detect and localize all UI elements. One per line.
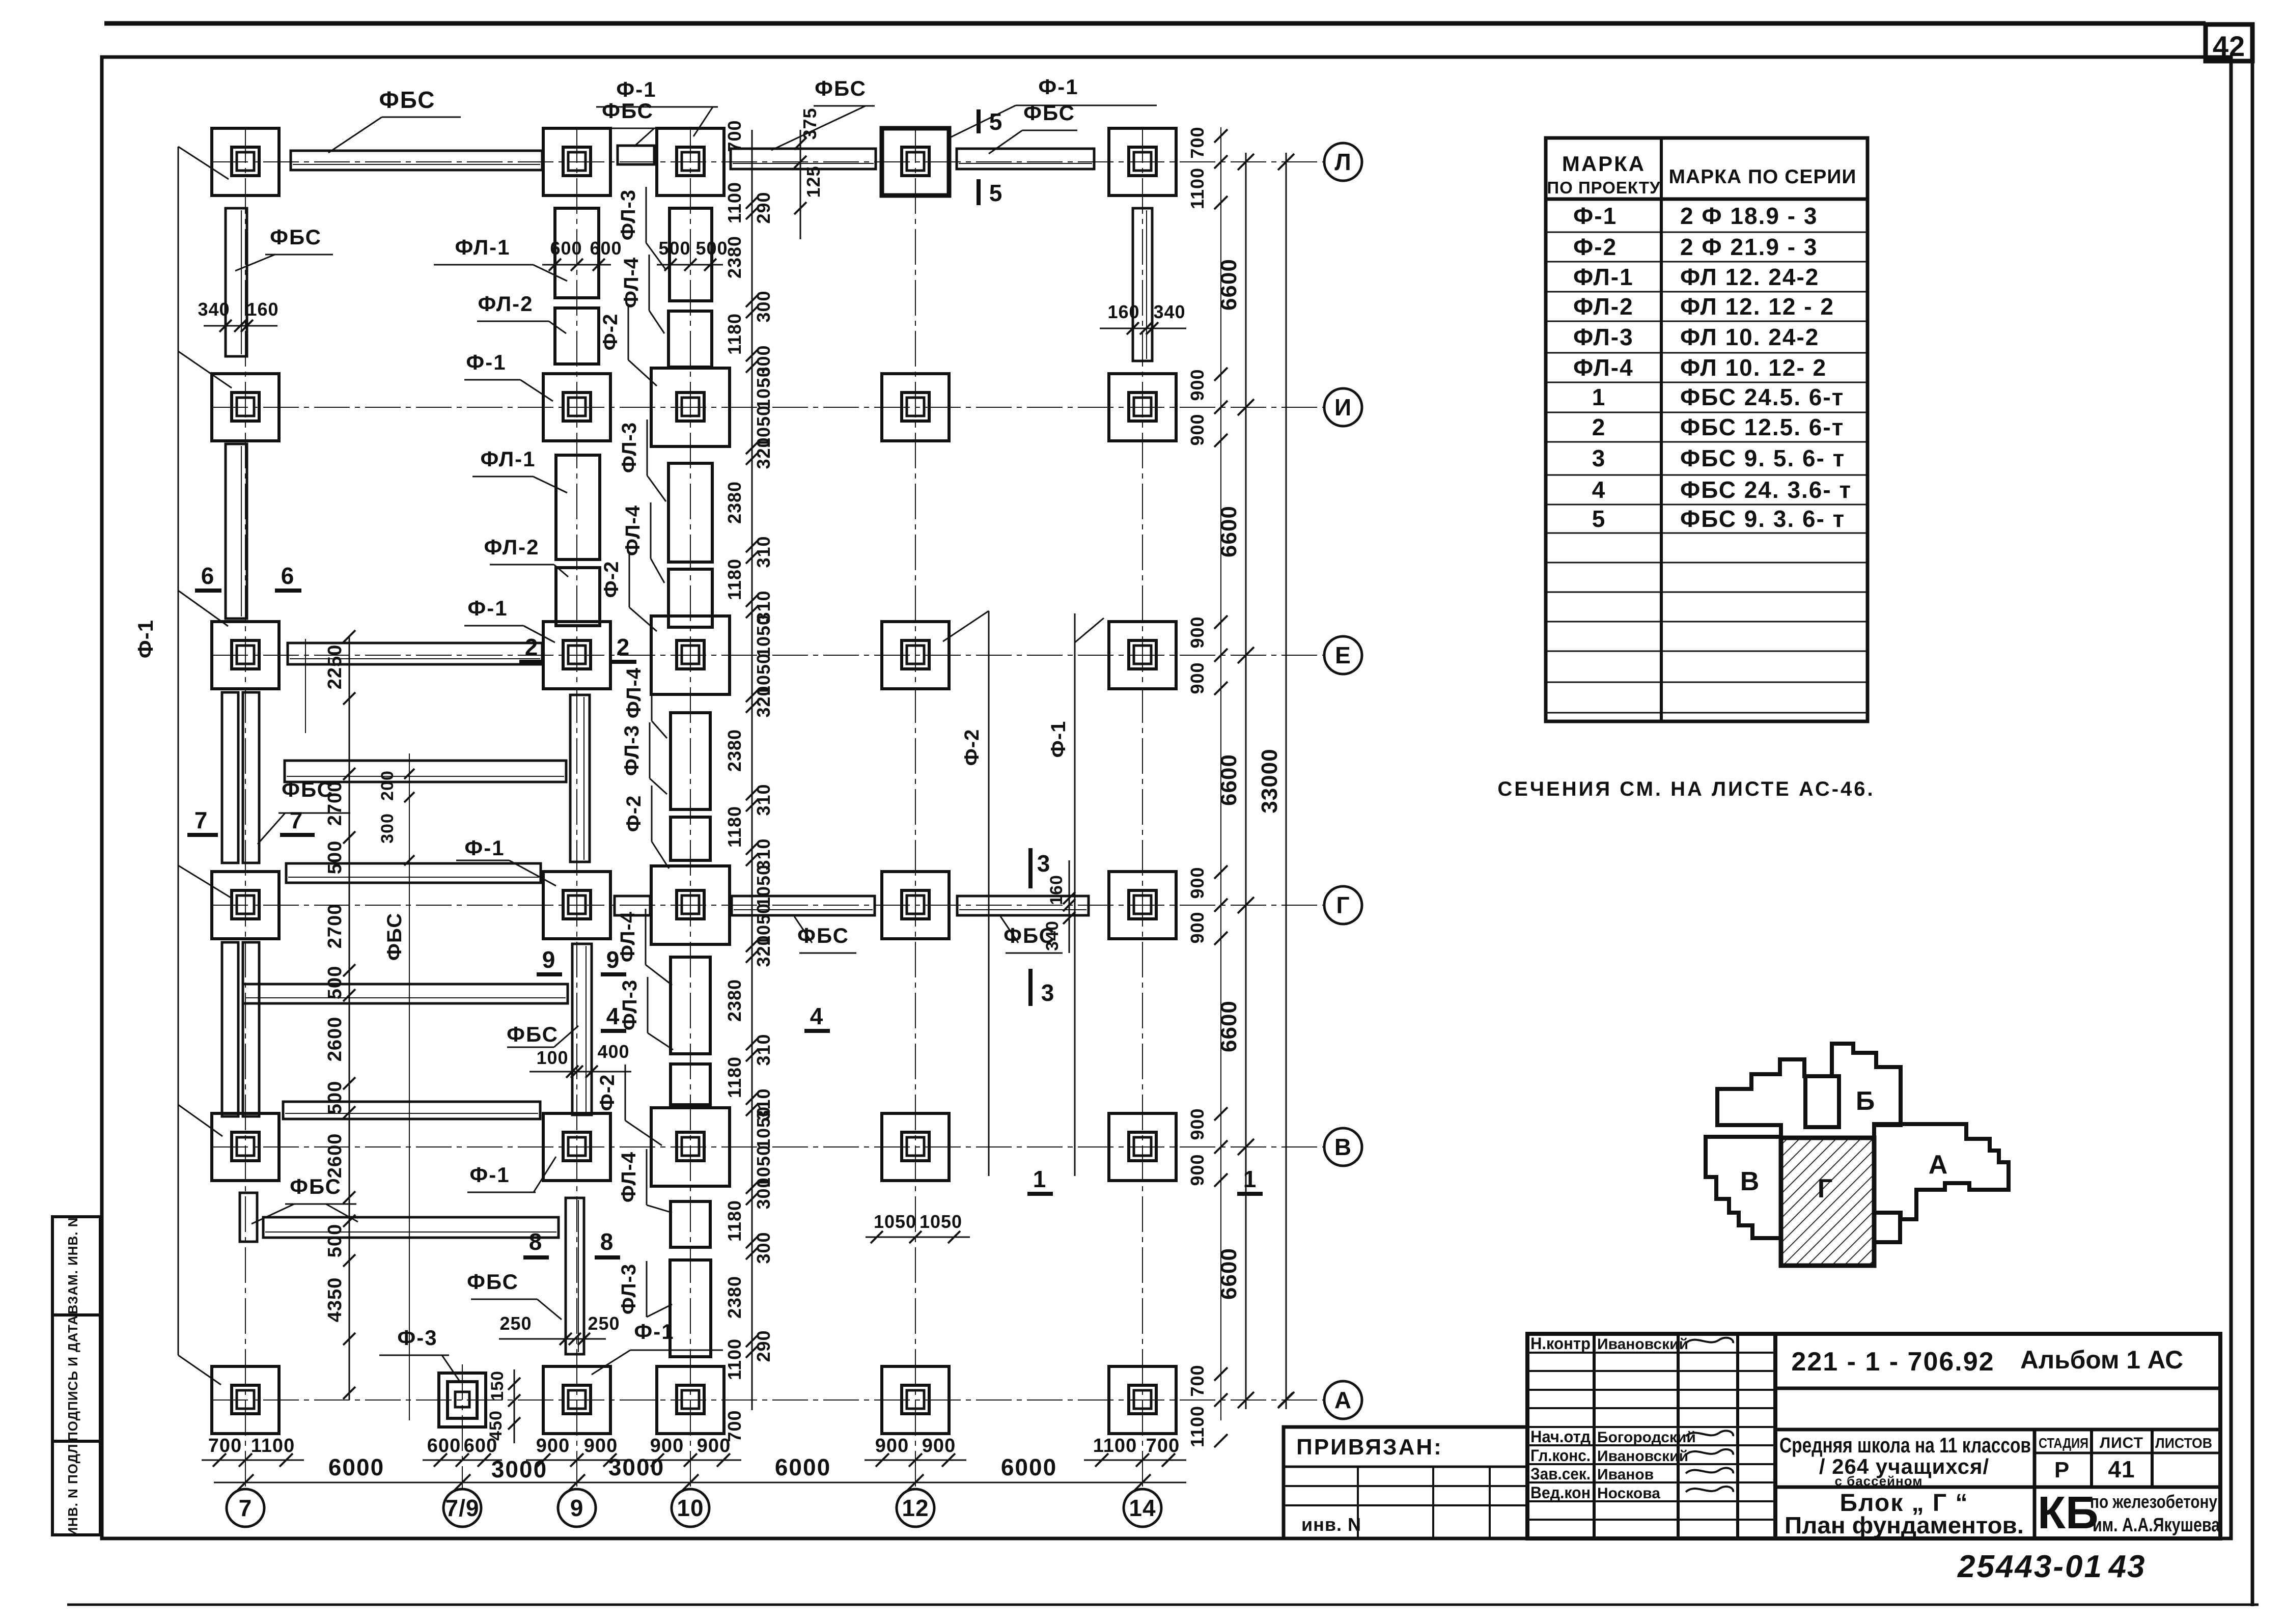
svg-text:4: 4 <box>810 1003 824 1029</box>
svg-text:ЛИСТОВ: ЛИСТОВ <box>2155 1435 2212 1451</box>
svg-text:Ф-1: Ф-1 <box>1047 721 1070 758</box>
svg-text:ФБС 12.5. 6-т: ФБС 12.5. 6-т <box>1680 414 1844 440</box>
svg-text:В: В <box>1334 1134 1352 1160</box>
svg-text:300: 300 <box>753 1177 774 1209</box>
svg-text:Гл.конс.: Гл.конс. <box>1530 1446 1591 1465</box>
svg-text:2380: 2380 <box>724 481 745 524</box>
svg-text:1050: 1050 <box>919 1211 962 1232</box>
svg-text:2: 2 <box>617 634 630 660</box>
svg-text:ФЛ-4: ФЛ-4 <box>617 911 639 962</box>
svg-text:1100: 1100 <box>1187 1406 1208 1447</box>
svg-text:900: 900 <box>1187 662 1208 694</box>
svg-text:9: 9 <box>542 946 556 973</box>
svg-text:250: 250 <box>588 1313 620 1334</box>
svg-text:221 - 1 - 706.92: 221 - 1 - 706.92 <box>1791 1347 1994 1377</box>
svg-text:150: 150 <box>488 1370 507 1401</box>
svg-text:3: 3 <box>1592 445 1606 471</box>
svg-text:160: 160 <box>1047 875 1066 905</box>
svg-text:ФБС: ФБС <box>797 923 849 947</box>
svg-text:1180: 1180 <box>724 1200 745 1242</box>
svg-text:ФЛ-3: ФЛ-3 <box>621 725 643 776</box>
svg-text:ПОДПИСЬ И ДАТА: ПОДПИСЬ И ДАТА <box>65 1315 80 1441</box>
svg-text:2600: 2600 <box>324 1133 346 1179</box>
svg-text:320: 320 <box>753 437 774 469</box>
svg-text:МАРКА: МАРКА <box>1562 152 1646 176</box>
svg-text:ПО ПРОЕКТУ: ПО ПРОЕКТУ <box>1547 178 1660 197</box>
svg-text:25443-01: 25443-01 <box>1957 1549 2103 1584</box>
svg-text:290: 290 <box>753 1330 774 1362</box>
svg-text:5: 5 <box>1592 506 1606 532</box>
svg-text:900: 900 <box>875 1435 909 1457</box>
svg-text:7/9: 7/9 <box>445 1495 480 1521</box>
svg-text:ФБС 24. 3.6- т: ФБС 24. 3.6- т <box>1680 477 1852 503</box>
svg-text:7: 7 <box>239 1495 253 1521</box>
svg-text:Богородский: Богородский <box>1597 1429 1696 1446</box>
svg-text:4: 4 <box>606 1003 620 1029</box>
svg-text:500: 500 <box>324 1081 346 1114</box>
svg-text:ИНВ. N ПОДЛ.: ИНВ. N ПОДЛ. <box>65 1439 80 1536</box>
svg-text:1050: 1050 <box>874 1211 916 1232</box>
svg-text:ФБС: ФБС <box>270 225 322 249</box>
svg-text:8: 8 <box>529 1228 543 1255</box>
svg-text:ФБС: ФБС <box>815 76 867 100</box>
svg-text:Ивановский: Ивановский <box>1597 1336 1688 1353</box>
svg-text:ВЗАМ. ИНВ. N: ВЗАМ. ИНВ. N <box>65 1217 80 1314</box>
svg-text:Нач.отд: Нач.отд <box>1530 1427 1591 1446</box>
svg-text:6000: 6000 <box>775 1454 831 1480</box>
svg-text:400: 400 <box>597 1041 629 1062</box>
svg-text:Ф-1: Ф-1 <box>616 77 656 101</box>
svg-text:600: 600 <box>427 1435 461 1457</box>
svg-text:320: 320 <box>753 935 774 967</box>
svg-text:План фундаментов.: План фундаментов. <box>1785 1512 2024 1538</box>
svg-text:2250: 2250 <box>324 645 346 690</box>
svg-text:12: 12 <box>902 1495 929 1521</box>
svg-text:ФЛ-3: ФЛ-3 <box>617 189 639 240</box>
svg-text:9: 9 <box>570 1495 584 1521</box>
svg-text:Носкова: Носкова <box>1597 1485 1660 1502</box>
svg-text:6: 6 <box>201 563 215 589</box>
svg-text:ФЛ-3: ФЛ-3 <box>618 422 640 473</box>
svg-text:МАРКА ПО СЕРИИ: МАРКА ПО СЕРИИ <box>1669 166 1857 188</box>
svg-text:ФЛ-3: ФЛ-3 <box>1573 324 1634 350</box>
svg-text:6600: 6600 <box>1216 506 1241 557</box>
svg-text:14: 14 <box>1129 1495 1156 1521</box>
svg-text:43: 43 <box>2108 1549 2146 1584</box>
svg-text:1180: 1180 <box>724 806 745 848</box>
svg-text:2380: 2380 <box>724 979 745 1022</box>
svg-text:6600: 6600 <box>1216 259 1241 311</box>
svg-text:Ф-1: Ф-1 <box>1038 75 1078 99</box>
svg-text:Е: Е <box>1335 642 1351 668</box>
svg-text:600: 600 <box>550 238 582 259</box>
svg-text:В: В <box>1740 1167 1760 1196</box>
svg-text:А: А <box>1334 1387 1352 1413</box>
svg-text:1: 1 <box>1592 384 1606 410</box>
svg-text:Ф-1: Ф-1 <box>634 1320 674 1343</box>
svg-text:700: 700 <box>1187 1364 1208 1396</box>
svg-text:по железобетону: по железобетону <box>2090 1491 2217 1512</box>
svg-text:4350: 4350 <box>324 1277 346 1323</box>
svg-text:900: 900 <box>1187 369 1208 401</box>
svg-text:900: 900 <box>1187 911 1208 943</box>
svg-text:1050: 1050 <box>753 614 774 657</box>
svg-text:125: 125 <box>803 165 824 198</box>
svg-text:1100: 1100 <box>724 1338 745 1380</box>
svg-text:6000: 6000 <box>1001 1454 1057 1480</box>
svg-text:5: 5 <box>989 108 1003 135</box>
svg-text:КБ: КБ <box>2038 1488 2099 1538</box>
svg-text:10: 10 <box>677 1495 704 1521</box>
svg-text:340: 340 <box>198 299 230 320</box>
svg-text:7: 7 <box>194 807 208 833</box>
svg-text:4: 4 <box>1592 477 1606 503</box>
svg-text:300: 300 <box>753 1231 774 1264</box>
svg-text:ФЛ-4: ФЛ-4 <box>623 667 645 718</box>
svg-text:1: 1 <box>1033 1166 1047 1192</box>
svg-text:Ф-2: Ф-2 <box>599 314 622 351</box>
svg-text:160: 160 <box>246 299 278 320</box>
svg-text:1050: 1050 <box>753 864 774 907</box>
svg-text:им. А.А.Якушева: им. А.А.Якушева <box>2093 1515 2220 1536</box>
svg-text:ФЛ-4: ФЛ-4 <box>618 1152 640 1202</box>
svg-text:2380: 2380 <box>724 1276 745 1319</box>
svg-text:2 Ф 18.9 - 3: 2 Ф 18.9 - 3 <box>1680 203 1818 229</box>
svg-text:ФЛ-3: ФЛ-3 <box>618 1264 640 1314</box>
svg-text:ФЛ-1: ФЛ-1 <box>455 235 510 259</box>
svg-text:6000: 6000 <box>328 1454 384 1480</box>
svg-text:3: 3 <box>1041 979 1055 1006</box>
svg-text:500: 500 <box>324 841 346 874</box>
svg-text:900: 900 <box>584 1435 618 1457</box>
svg-text:ФЛ-4: ФЛ-4 <box>620 257 643 308</box>
svg-text:ФБС: ФБС <box>379 87 436 113</box>
svg-text:ФБС: ФБС <box>602 99 654 123</box>
svg-text:ФБС: ФБС <box>282 777 333 801</box>
svg-text:А: А <box>1929 1150 1948 1180</box>
svg-text:Г: Г <box>1818 1174 1833 1203</box>
svg-text:700: 700 <box>1146 1435 1180 1457</box>
svg-text:Средняя школа на 11 классов: Средняя школа на 11 классов <box>1779 1433 2031 1457</box>
svg-text:1100: 1100 <box>724 182 745 223</box>
svg-text:ФБС 9. 3. 6- т: ФБС 9. 3. 6- т <box>1680 506 1845 532</box>
svg-text:310: 310 <box>753 783 774 816</box>
svg-text:250: 250 <box>499 1313 532 1334</box>
svg-text:300: 300 <box>753 290 774 322</box>
svg-text:ФЛ-3: ФЛ-3 <box>619 979 641 1030</box>
svg-text:Зав.сек.: Зав.сек. <box>1530 1465 1591 1483</box>
svg-text:900: 900 <box>922 1435 956 1457</box>
svg-text:1: 1 <box>1243 1166 1257 1192</box>
svg-text:Г: Г <box>1336 892 1350 918</box>
svg-text:700: 700 <box>724 1410 745 1442</box>
svg-text:Ф-1: Ф-1 <box>1573 203 1617 229</box>
svg-text:500: 500 <box>324 966 346 999</box>
svg-text:Иванов: Иванов <box>1597 1466 1654 1483</box>
svg-text:ФЛ-2: ФЛ-2 <box>484 535 539 559</box>
svg-text:ФЛ-4: ФЛ-4 <box>622 505 644 556</box>
svg-text:3000: 3000 <box>608 1454 664 1480</box>
svg-text:9: 9 <box>606 946 620 973</box>
svg-text:Ф-1: Ф-1 <box>466 350 506 374</box>
svg-text:900: 900 <box>1187 1154 1208 1186</box>
svg-text:ФБС: ФБС <box>467 1270 519 1294</box>
svg-text:И: И <box>1334 394 1352 421</box>
svg-text:СТАДИЯ: СТАДИЯ <box>2039 1435 2088 1451</box>
svg-text:ФЛ-2: ФЛ-2 <box>1573 293 1634 320</box>
svg-text:700: 700 <box>208 1435 242 1457</box>
svg-text:100: 100 <box>536 1047 568 1068</box>
svg-text:Ф-2: Ф-2 <box>623 795 645 832</box>
svg-text:1100: 1100 <box>1187 167 1208 209</box>
svg-text:1050: 1050 <box>753 1106 774 1149</box>
svg-text:7: 7 <box>290 807 303 833</box>
svg-text:900: 900 <box>650 1435 684 1457</box>
svg-text:ФБС: ФБС <box>507 1022 559 1046</box>
svg-text:Ф-1: Ф-1 <box>133 620 157 658</box>
svg-text:ФЛ 10. 12- 2: ФЛ 10. 12- 2 <box>1680 354 1827 381</box>
svg-text:ФБС: ФБС <box>383 913 406 961</box>
svg-text:2: 2 <box>525 634 539 660</box>
svg-text:Б: Б <box>1856 1086 1875 1116</box>
svg-text:700: 700 <box>1187 126 1208 158</box>
svg-text:с бассейном: с бассейном <box>1834 1473 1922 1489</box>
svg-text:290: 290 <box>753 191 774 223</box>
svg-text:900: 900 <box>536 1435 570 1457</box>
svg-text:1100: 1100 <box>251 1435 295 1457</box>
svg-text:Ф-2: Ф-2 <box>961 729 983 766</box>
svg-text:3: 3 <box>1037 850 1051 877</box>
svg-text:2: 2 <box>1592 414 1606 440</box>
svg-text:33000: 33000 <box>1257 748 1282 813</box>
svg-text:ФЛ 10. 24-2: ФЛ 10. 24-2 <box>1680 324 1819 350</box>
svg-text:Р: Р <box>2054 1458 2070 1482</box>
svg-text:ФЛ-4: ФЛ-4 <box>1573 354 1634 381</box>
svg-text:2380: 2380 <box>724 729 745 772</box>
svg-text:900: 900 <box>1187 616 1208 648</box>
svg-text:1050: 1050 <box>753 367 774 409</box>
svg-text:500: 500 <box>324 1224 346 1257</box>
svg-text:6600: 6600 <box>1216 1248 1241 1300</box>
svg-text:900: 900 <box>1187 413 1208 445</box>
svg-text:ФБС 9. 5. 6- т: ФБС 9. 5. 6- т <box>1680 445 1845 471</box>
svg-text:6600: 6600 <box>1216 754 1241 806</box>
svg-text:700: 700 <box>724 120 745 152</box>
svg-text:340: 340 <box>1153 301 1185 322</box>
svg-text:1180: 1180 <box>724 558 745 600</box>
svg-text:600: 600 <box>590 238 622 259</box>
svg-text:ПРИВЯЗАН:: ПРИВЯЗАН: <box>1296 1435 1443 1460</box>
svg-text:Ф-1: Ф-1 <box>464 836 505 860</box>
svg-text:Н.контр: Н.контр <box>1530 1334 1591 1353</box>
svg-text:900: 900 <box>1187 1108 1208 1140</box>
svg-text:Ивановский: Ивановский <box>1597 1448 1688 1465</box>
svg-text:1100: 1100 <box>1093 1435 1137 1457</box>
svg-text:ЛИСТ: ЛИСТ <box>2100 1435 2143 1451</box>
svg-text:ФЛ 12. 24-2: ФЛ 12. 24-2 <box>1680 264 1819 290</box>
svg-text:160: 160 <box>1107 301 1139 322</box>
svg-text:340: 340 <box>1043 920 1062 951</box>
svg-text:Вед.кон: Вед.кон <box>1530 1483 1591 1502</box>
svg-text:1180: 1180 <box>724 1056 745 1098</box>
svg-text:ФБС: ФБС <box>290 1174 342 1198</box>
svg-text:Ф-2: Ф-2 <box>1573 234 1617 260</box>
svg-text:ФБС 24.5. 6-т: ФБС 24.5. 6-т <box>1680 384 1844 410</box>
svg-text:Альбом 1 АС: Альбом 1 АС <box>2020 1346 2183 1374</box>
svg-text:ФЛ-1: ФЛ-1 <box>480 447 536 471</box>
svg-text:5: 5 <box>989 180 1003 206</box>
svg-text:Ф-3: Ф-3 <box>397 1326 437 1350</box>
svg-text:6600: 6600 <box>1216 1000 1241 1052</box>
svg-text:2 Ф 21.9 - 3: 2 Ф 21.9 - 3 <box>1680 234 1818 260</box>
svg-text:2700: 2700 <box>324 904 346 949</box>
svg-text:200: 200 <box>378 770 397 801</box>
svg-text:ФЛ-2: ФЛ-2 <box>478 292 533 316</box>
svg-text:2600: 2600 <box>324 1017 346 1062</box>
svg-text:6: 6 <box>281 563 295 589</box>
svg-text:ФЛ 12. 12 - 2: ФЛ 12. 12 - 2 <box>1680 293 1834 320</box>
svg-text:900: 900 <box>1187 866 1208 899</box>
svg-text:Ф-1: Ф-1 <box>469 1163 510 1187</box>
svg-text:1180: 1180 <box>724 313 745 355</box>
svg-text:500: 500 <box>658 238 690 259</box>
svg-text:310: 310 <box>753 536 774 568</box>
svg-text:Ф-1: Ф-1 <box>467 596 508 620</box>
svg-text:450: 450 <box>486 1410 506 1441</box>
svg-text:310: 310 <box>753 1033 774 1066</box>
svg-text:инв. N: инв. N <box>1301 1514 1361 1535</box>
svg-text:Л: Л <box>1334 149 1351 175</box>
svg-text:ФБС: ФБС <box>1023 101 1075 125</box>
svg-text:8: 8 <box>600 1228 614 1255</box>
svg-text:Ф-2: Ф-2 <box>596 1074 619 1111</box>
svg-text:СЕЧЕНИЯ СМ. НА ЛИСТЕ АС-46.: СЕЧЕНИЯ СМ. НА ЛИСТЕ АС-46. <box>1497 778 1875 800</box>
svg-text:500: 500 <box>695 238 728 259</box>
svg-text:ФЛ-1: ФЛ-1 <box>1573 264 1634 290</box>
svg-text:Ф-2: Ф-2 <box>600 561 623 598</box>
svg-text:300: 300 <box>378 813 397 844</box>
svg-text:41: 41 <box>2108 1456 2135 1482</box>
